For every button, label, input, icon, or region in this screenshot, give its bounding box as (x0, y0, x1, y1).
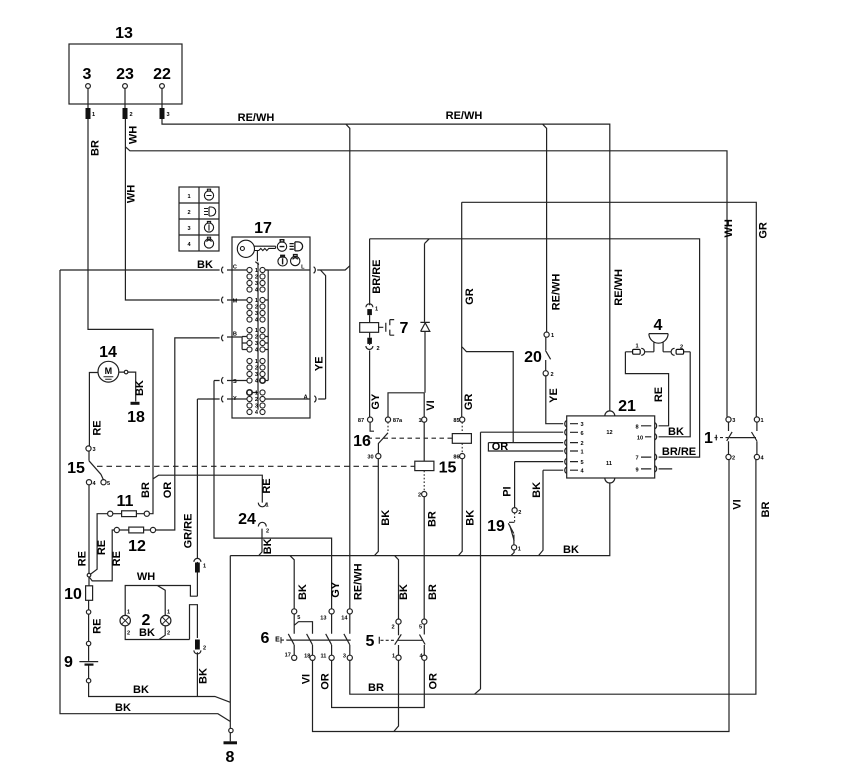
svg-text:23: 23 (116, 66, 134, 83)
svg-text:1: 1 (265, 503, 268, 509)
svg-text:BK: BK (134, 380, 146, 396)
svg-text:87a: 87a (393, 418, 403, 424)
svg-text:1: 1 (704, 430, 713, 447)
svg-text:15: 15 (67, 460, 85, 477)
svg-text:BK: BK (380, 510, 392, 526)
svg-text:BK: BK (531, 482, 543, 498)
svg-text:BR/RE: BR/RE (371, 259, 383, 293)
svg-text:87: 87 (358, 418, 364, 424)
svg-text:2: 2 (203, 646, 206, 652)
svg-text:L: L (301, 264, 305, 270)
svg-text:4: 4 (92, 481, 96, 487)
svg-text:B: B (233, 331, 237, 337)
svg-text:3: 3 (255, 404, 258, 410)
svg-text:PI: PI (502, 486, 514, 496)
svg-text:10: 10 (64, 586, 82, 603)
svg-text:A: A (304, 394, 308, 400)
svg-text:2: 2 (129, 112, 132, 118)
svg-text:2: 2 (418, 493, 421, 499)
svg-text:8: 8 (635, 424, 638, 430)
svg-text:4: 4 (760, 456, 764, 462)
svg-text:1: 1 (760, 418, 763, 424)
svg-text:RE: RE (91, 619, 103, 634)
svg-text:1: 1 (92, 112, 95, 118)
svg-text:WH: WH (137, 571, 155, 583)
svg-text:YE: YE (314, 356, 326, 371)
svg-text:RE: RE (92, 420, 104, 435)
svg-text:RE: RE (96, 540, 108, 555)
svg-text:BR: BR (90, 140, 102, 156)
svg-text:BK: BK (398, 584, 410, 600)
svg-text:24: 24 (238, 511, 256, 528)
svg-text:BK: BK (668, 426, 684, 438)
svg-text:5: 5 (580, 460, 583, 466)
svg-text:3: 3 (187, 226, 190, 232)
svg-text:20: 20 (524, 349, 542, 366)
svg-text:RE/WH: RE/WH (551, 274, 563, 311)
svg-text:1: 1 (127, 610, 130, 616)
svg-text:3: 3 (255, 281, 258, 287)
svg-text:1: 1 (255, 391, 258, 397)
svg-text:2: 2 (732, 456, 735, 462)
svg-text:OR: OR (492, 441, 509, 453)
svg-text:RE: RE (261, 478, 273, 493)
svg-text:RE/WH: RE/WH (613, 269, 625, 306)
svg-text:11: 11 (606, 461, 612, 467)
svg-text:1: 1 (375, 307, 378, 313)
svg-text:1: 1 (255, 298, 258, 304)
svg-text:2: 2 (518, 510, 521, 516)
svg-text:1: 1 (518, 546, 521, 552)
svg-text:5: 5 (419, 625, 422, 631)
svg-text:RE/WH: RE/WH (238, 112, 275, 124)
svg-text:GR: GR (463, 394, 475, 411)
svg-text:11: 11 (117, 493, 134, 510)
svg-text:BK: BK (465, 510, 477, 526)
svg-text:2: 2 (255, 275, 258, 281)
svg-text:8: 8 (226, 749, 235, 766)
svg-text:16: 16 (353, 433, 371, 450)
svg-text:17: 17 (254, 220, 272, 237)
svg-text:2: 2 (376, 346, 379, 352)
svg-text:WH: WH (126, 185, 138, 203)
svg-text:13: 13 (320, 616, 326, 622)
svg-text:12: 12 (606, 430, 612, 436)
svg-text:3: 3 (166, 112, 169, 118)
svg-text:M: M (105, 366, 113, 376)
svg-text:1: 1 (203, 564, 206, 570)
svg-text:1: 1 (187, 194, 190, 200)
svg-text:4: 4 (580, 469, 584, 475)
svg-text:M: M (233, 298, 238, 304)
svg-text:11: 11 (320, 653, 326, 659)
svg-text:GY: GY (370, 393, 382, 410)
svg-text:7: 7 (635, 456, 638, 462)
svg-text:1: 1 (167, 610, 170, 616)
svg-text:12: 12 (128, 538, 146, 555)
svg-text:3: 3 (255, 372, 258, 378)
svg-text:4: 4 (187, 242, 191, 248)
svg-text:6: 6 (580, 431, 583, 437)
svg-text:RE: RE (111, 551, 123, 566)
svg-text:18: 18 (127, 409, 145, 426)
svg-text:5: 5 (366, 633, 375, 650)
svg-text:BK: BK (133, 684, 149, 696)
svg-text:85: 85 (453, 418, 459, 424)
svg-text:2: 2 (266, 529, 269, 535)
svg-text:RE: RE (77, 551, 89, 566)
svg-text:9: 9 (64, 654, 73, 671)
svg-text:1: 1 (255, 328, 258, 334)
svg-text:GY: GY (330, 581, 342, 598)
svg-text:BK: BK (139, 627, 155, 639)
svg-text:18: 18 (304, 654, 310, 660)
svg-text:5: 5 (297, 615, 300, 621)
svg-text:OR: OR (162, 482, 174, 499)
svg-text:GR/RE: GR/RE (183, 514, 195, 549)
svg-text:BK: BK (115, 702, 131, 714)
svg-text:GR: GR (464, 288, 476, 305)
svg-text:17: 17 (285, 653, 291, 659)
svg-text:S: S (233, 379, 237, 385)
svg-text:C: C (233, 264, 237, 270)
svg-text:3: 3 (580, 422, 583, 428)
svg-text:RE/WH: RE/WH (352, 563, 364, 600)
svg-text:19: 19 (487, 518, 505, 535)
svg-text:BK: BK (262, 538, 274, 554)
svg-text:86: 86 (453, 455, 459, 461)
svg-text:BR: BR (140, 482, 152, 498)
svg-text:YE: YE (548, 388, 560, 403)
svg-text:1: 1 (255, 359, 258, 365)
svg-text:1: 1 (551, 333, 554, 339)
svg-text:BR: BR (368, 682, 384, 694)
svg-text:2: 2 (187, 210, 190, 216)
svg-text:2: 2 (255, 366, 258, 372)
svg-text:VI: VI (301, 674, 313, 684)
svg-text:2: 2 (550, 372, 553, 378)
svg-text:3: 3 (83, 66, 92, 83)
svg-text:BR: BR (426, 511, 438, 527)
svg-text:1: 1 (392, 653, 395, 659)
svg-text:5: 5 (107, 481, 110, 487)
svg-text:BK: BK (198, 668, 210, 684)
svg-text:13: 13 (115, 25, 133, 42)
svg-text:1: 1 (418, 418, 421, 424)
svg-text:14: 14 (341, 616, 348, 622)
svg-text:2: 2 (680, 345, 683, 351)
svg-text:3: 3 (255, 311, 258, 317)
svg-text:OR: OR (428, 673, 440, 690)
svg-text:OR: OR (320, 673, 332, 690)
svg-text:BR: BR (427, 584, 439, 600)
svg-text:4: 4 (255, 410, 259, 416)
svg-text:6: 6 (261, 630, 270, 647)
svg-text:2: 2 (255, 305, 258, 311)
svg-text:10: 10 (637, 435, 643, 441)
svg-text:1: 1 (635, 344, 638, 350)
svg-text:3: 3 (255, 341, 258, 347)
svg-text:14: 14 (99, 344, 117, 361)
svg-text:1: 1 (580, 450, 583, 456)
svg-text:3: 3 (343, 653, 346, 659)
svg-text:BR: BR (760, 502, 772, 518)
svg-text:3: 3 (732, 418, 735, 424)
svg-text:22: 22 (153, 66, 171, 83)
svg-text:VI: VI (425, 400, 437, 410)
svg-text:1: 1 (255, 268, 258, 274)
svg-text:RE: RE (653, 387, 665, 402)
svg-text:15: 15 (439, 460, 457, 477)
svg-text:2: 2 (127, 631, 130, 637)
svg-text:3: 3 (92, 447, 95, 453)
svg-text:E: E (275, 637, 280, 644)
svg-text:21: 21 (618, 398, 636, 415)
svg-text:BK: BK (297, 584, 309, 600)
svg-text:2: 2 (391, 625, 394, 631)
svg-text:2: 2 (255, 397, 258, 403)
svg-text:BK: BK (197, 259, 213, 271)
svg-text:GR: GR (757, 222, 769, 239)
svg-text:VI: VI (731, 499, 743, 509)
svg-text:30: 30 (367, 455, 373, 461)
svg-text:WH: WH (128, 126, 140, 144)
svg-text:2: 2 (167, 631, 170, 637)
svg-text:BR/RE: BR/RE (662, 446, 696, 458)
svg-text:2: 2 (580, 441, 583, 447)
svg-text:RE/WH: RE/WH (446, 110, 483, 122)
svg-text:BK: BK (563, 544, 579, 556)
svg-text:2: 2 (255, 335, 258, 341)
svg-text:9: 9 (635, 467, 638, 473)
svg-text:7: 7 (400, 320, 409, 337)
svg-text:WH: WH (723, 219, 735, 237)
svg-text:Y: Y (233, 396, 237, 402)
svg-text:4: 4 (654, 317, 663, 334)
